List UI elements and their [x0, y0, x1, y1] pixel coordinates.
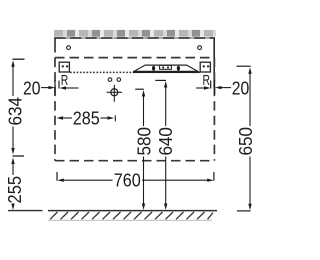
crosshair lower tick: [114, 115, 116, 121]
countertop back dotted line: [70, 71, 200, 73]
svg-text:20: 20: [232, 79, 250, 99]
floor line: [48, 210, 217, 212]
dim 20 left: counter arrow: [60, 86, 67, 89]
basin base thick line: [133, 71, 199, 73]
dim 650 top tick: [237, 65, 251, 67]
dim 580 line: [142, 90, 145, 97]
dim 760 left arrow: [57, 179, 64, 182]
bracket R left: [59, 62, 69, 72]
svg-text:R: R: [61, 72, 69, 89]
svg-text:580: 580: [134, 127, 154, 156]
countertop right edge: [213, 37, 215, 88]
dim 20 left: arrow to edge: [41, 87, 50, 89]
basin middle dot 1: [162, 66, 164, 68]
countertop left edge: [54, 37, 56, 52]
dim 760 right arrow: [142, 179, 208, 181]
cabinet dashed outline left: [54, 58, 56, 161]
dim 634 top tick: [13, 58, 25, 60]
dim 20 right: counter arrow: [215, 86, 222, 89]
crosshair drain mark: [111, 89, 118, 96]
dim 640 top tick: [155, 79, 166, 81]
wall hatch strip (top wall): [54, 30, 216, 37]
svg-text:760: 760: [114, 171, 141, 191]
floor hatch strokes: [50, 212, 213, 219]
svg-text:640: 640: [156, 127, 176, 156]
dim 634 line: [11, 60, 14, 66]
svg-text:650: 650: [236, 127, 256, 156]
dim 20 right: ticks: [210, 81, 212, 89]
dim 285 right arrow: [101, 117, 109, 119]
fixing hole right: [198, 46, 202, 50]
bracket R right: [200, 62, 210, 72]
svg-text:285: 285: [73, 108, 100, 128]
basin right oval: [177, 66, 180, 71]
cabinet dashed outline right: [213, 58, 215, 161]
basin middle rectangle: [160, 65, 172, 69]
floor datum short line left: [8, 210, 43, 212]
cabinet dashed outline top: [55, 57, 214, 59]
dim 20 right: arrow from left: [196, 87, 205, 89]
dim 255 line: [11, 158, 14, 165]
svg-text:R: R: [202, 72, 210, 89]
dim 634/255 middle tick: [13, 155, 25, 157]
dim 650 line: [248, 67, 251, 74]
dim 650 bottom tick: [237, 210, 251, 212]
basin middle dot 2: [167, 66, 169, 68]
cabinet dashed outline bottom: [55, 160, 214, 162]
svg-text:634: 634: [6, 97, 26, 126]
svg-text:20: 20: [23, 79, 41, 99]
dim 760 right extension: [213, 172, 215, 181]
dim 580 top tick: [135, 88, 144, 90]
basin left oval: [152, 66, 155, 71]
dim 20 left: ticks: [54, 80, 56, 95]
floor underline gray: [48, 219, 212, 221]
small holes above crosshair: [108, 78, 112, 82]
dim 760 left extension: [56, 172, 58, 181]
svg-text:255: 255: [5, 176, 25, 204]
dim 285 left arrow: [57, 116, 64, 119]
dim 640 line: [164, 81, 167, 88]
fixing hole left: [67, 46, 71, 50]
countertop top edge: [55, 37, 215, 39]
basin trap profile: [134, 65, 199, 72]
